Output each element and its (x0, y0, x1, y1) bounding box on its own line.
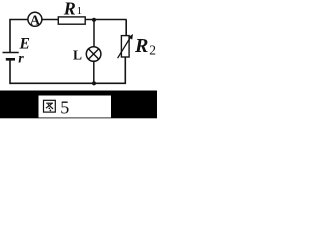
lamp L (73, 47, 101, 63)
wire: ammeter to R1 (42, 19, 58, 21)
resistor R1 (58, 0, 85, 24)
svg-text:L: L (73, 48, 82, 63)
wire: lamp branch from top node (93, 20, 95, 47)
svg-text:1: 1 (77, 5, 83, 17)
svg-text:2: 2 (149, 43, 156, 58)
ammeter A1 (28, 12, 42, 28)
svg-text:A: A (30, 13, 41, 28)
caption box 图5 (39, 96, 112, 118)
svg-text:5: 5 (60, 98, 69, 118)
wire: R1 to top-right corner (85, 19, 126, 21)
wire: top-left from corner to ammeter (10, 20, 28, 53)
wire: R2 down to bottom-right corner (10, 57, 125, 83)
svg-text:R: R (134, 35, 148, 57)
svg-text:E: E (19, 35, 30, 52)
battery E r (3, 35, 30, 66)
wire: lamp to bottom node (93, 61, 95, 83)
caption bar (0, 91, 157, 119)
node: top junction dot (92, 18, 96, 22)
svg-text:R: R (63, 0, 76, 19)
svg-text:r: r (18, 52, 24, 67)
node: bottom junction dot (92, 81, 96, 85)
wire: right side down to R2 (125, 20, 127, 36)
rheostat R2 (118, 34, 156, 58)
wire: battery bottom to bottom-left corner (9, 60, 11, 84)
